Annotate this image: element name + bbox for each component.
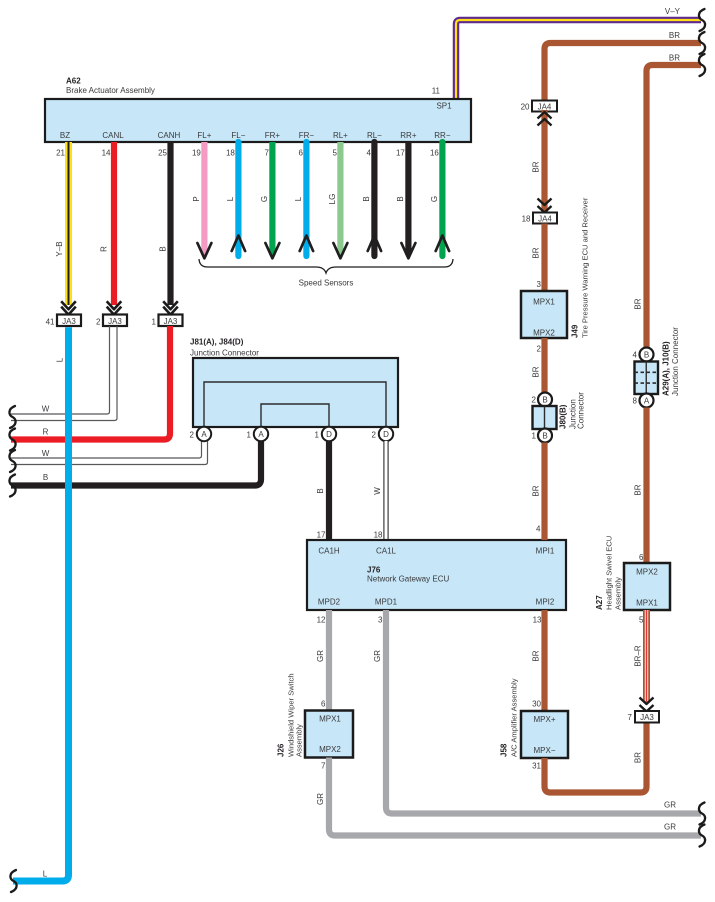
connector 20 JA4 xyxy=(521,101,557,112)
wire BR from node 8A to A27 pin 6 xyxy=(634,408,647,564)
svg-text:Assembly: Assembly xyxy=(295,724,304,757)
squiggle break W wires left xyxy=(9,406,15,428)
svg-text:Connector: Connector xyxy=(577,392,586,429)
svg-text:2: 2 xyxy=(532,396,537,405)
wire G speed sensor FR+ xyxy=(260,142,279,258)
wire GR from MPD2 pin 12 to J26 pin 6 xyxy=(316,610,329,711)
svg-text:V–Y: V–Y xyxy=(665,7,681,16)
svg-text:L: L xyxy=(226,196,235,201)
svg-text:3: 3 xyxy=(537,280,542,289)
wire G speed sensor RR- xyxy=(430,142,449,256)
wire W from 2 JA3 to left edge (lower) xyxy=(11,326,117,421)
svg-text:Junction Connector: Junction Connector xyxy=(190,349,259,358)
svg-text:SP1: SP1 xyxy=(436,102,452,111)
svg-text:CANH: CANH xyxy=(158,131,181,140)
ECU A27 Headlight Swivel ECU Assembly xyxy=(595,536,670,610)
wire Y-B from pin 21 to JA3 xyxy=(55,142,69,305)
svg-text:MPX2: MPX2 xyxy=(319,745,341,754)
svg-text:BR: BR xyxy=(532,366,541,377)
svg-text:17: 17 xyxy=(317,531,326,540)
squiggle break GR wire 2 right edge xyxy=(699,825,705,847)
svg-text:4: 4 xyxy=(633,351,638,360)
svg-text:5: 5 xyxy=(332,149,337,158)
svg-text:18: 18 xyxy=(522,215,531,224)
wire L cyan from 41 JA3 down to bottom left xyxy=(13,327,69,881)
svg-text:J76: J76 xyxy=(367,566,381,575)
wire W from junction circle 2A to left edge (lower) xyxy=(11,441,208,465)
svg-text:B: B xyxy=(644,351,649,360)
junction connector J81(A), J84(D) xyxy=(190,338,398,428)
svg-text:CANL: CANL xyxy=(102,131,124,140)
switch J26 Windshield Wiper Switch Assembly xyxy=(277,673,354,757)
svg-text:18: 18 xyxy=(374,531,383,540)
svg-text:GR: GR xyxy=(316,650,325,662)
svg-text:1: 1 xyxy=(532,432,537,441)
node 1A xyxy=(247,427,269,441)
svg-text:G: G xyxy=(260,196,269,202)
svg-text:25: 25 xyxy=(158,149,167,158)
svg-text:Network Gateway ECU: Network Gateway ECU xyxy=(367,575,449,584)
svg-text:12: 12 xyxy=(317,616,326,625)
svg-text:D: D xyxy=(326,430,332,439)
svg-text:7: 7 xyxy=(321,762,326,771)
svg-text:14: 14 xyxy=(102,149,111,158)
svg-text:RR−: RR− xyxy=(434,131,451,140)
svg-text:2: 2 xyxy=(537,345,542,354)
svg-text:1: 1 xyxy=(247,431,252,440)
svg-text:6: 6 xyxy=(639,553,644,562)
wire B speed sensor RR+ xyxy=(396,142,415,258)
ECU J58 A/C Amplifier Assembly xyxy=(500,678,569,758)
svg-text:J80(B): J80(B) xyxy=(559,404,568,429)
svg-text:LG: LG xyxy=(328,194,337,205)
internal bus 1A-1D xyxy=(261,404,329,426)
svg-text:BR: BR xyxy=(532,650,541,661)
wire GR from J26 pin 7 to right edge xyxy=(316,758,701,836)
squiggle break cyan wire bottom left xyxy=(10,870,16,892)
svg-text:Assembly: Assembly xyxy=(614,577,623,610)
svg-text:FR−: FR− xyxy=(299,131,315,140)
internal bus 2A-2D xyxy=(204,382,386,426)
wire GR from MPD1 pin 3 to right edge xyxy=(373,610,701,814)
svg-text:MPD1: MPD1 xyxy=(375,598,398,607)
svg-text:W: W xyxy=(373,487,382,495)
connector 2 JA3 xyxy=(96,315,127,327)
svg-text:21: 21 xyxy=(56,149,65,158)
squiggle break GR wire 1 right edge xyxy=(699,803,705,825)
wire L speed sensor FR- xyxy=(294,142,313,256)
svg-text:13: 13 xyxy=(533,616,542,625)
svg-text:A: A xyxy=(644,397,650,406)
svg-text:11: 11 xyxy=(432,87,441,96)
svg-text:B: B xyxy=(542,396,547,405)
squiggle break BR wire 1 right edge xyxy=(699,32,705,54)
svg-text:MPX1: MPX1 xyxy=(319,715,341,724)
svg-text:MPD2: MPD2 xyxy=(318,598,341,607)
wire BR from right edge down right column to junction A29/J10 xyxy=(634,54,702,348)
svg-text:D: D xyxy=(383,430,389,439)
svg-text:BR: BR xyxy=(634,752,643,763)
svg-text:BR: BR xyxy=(634,484,643,495)
svg-text:2: 2 xyxy=(190,431,195,440)
wire BR from 18 JA4 to J49 pin 3 xyxy=(532,224,545,292)
svg-text:Brake Actuator Assembly: Brake Actuator Assembly xyxy=(66,86,155,95)
squiggle break B wire left xyxy=(9,475,15,497)
svg-text:A62: A62 xyxy=(66,77,81,86)
svg-text:A: A xyxy=(258,430,264,439)
connector 7 JA3 xyxy=(628,711,659,723)
node 8 A (A29/J10 bottom) xyxy=(633,394,654,408)
svg-text:18: 18 xyxy=(226,149,235,158)
svg-text:19: 19 xyxy=(192,149,201,158)
svg-text:4: 4 xyxy=(366,149,371,158)
svg-text:G: G xyxy=(430,196,439,202)
svg-text:B: B xyxy=(158,246,167,251)
svg-text:BR: BR xyxy=(532,161,541,172)
squiggle break R wire left xyxy=(9,429,15,451)
wire W from 2D to CA1L pin 18 xyxy=(373,441,386,540)
svg-text:3: 3 xyxy=(378,616,383,625)
svg-text:JA3: JA3 xyxy=(62,317,76,326)
svg-text:JA4: JA4 xyxy=(538,215,552,224)
svg-text:1: 1 xyxy=(152,318,157,327)
wire BR from right edge down to JA4 pin 20 xyxy=(545,31,702,100)
wire LG speed sensor RL+ xyxy=(328,142,347,258)
svg-text:BR: BR xyxy=(634,298,643,309)
svg-text:MPX−: MPX− xyxy=(533,746,555,755)
svg-text:Junction Connector: Junction Connector xyxy=(671,327,680,396)
svg-text:BR: BR xyxy=(669,31,680,40)
svg-text:GR: GR xyxy=(316,793,325,805)
svg-text:41: 41 xyxy=(46,318,55,327)
wire B speed sensor RL- xyxy=(362,142,381,256)
svg-text:A29(A), J10(B): A29(A), J10(B) xyxy=(662,341,671,396)
svg-text:6: 6 xyxy=(321,700,326,709)
svg-text:BR–R: BR–R xyxy=(634,645,643,667)
wire BR between JA4 connectors xyxy=(532,110,545,213)
junction connector J80(B) xyxy=(533,392,586,429)
svg-text:R: R xyxy=(43,428,49,437)
svg-text:MPX2: MPX2 xyxy=(636,568,658,577)
svg-text:JA3: JA3 xyxy=(640,713,654,722)
svg-text:GR: GR xyxy=(373,650,382,662)
wire BR from J76 MPI2 pin 13 to J58 pin 30 xyxy=(532,610,545,711)
svg-text:B: B xyxy=(396,196,405,201)
svg-text:MPX+: MPX+ xyxy=(533,715,555,724)
node 2D xyxy=(372,427,394,441)
svg-text:BR: BR xyxy=(532,247,541,258)
svg-text:7: 7 xyxy=(264,149,269,158)
svg-text:L: L xyxy=(294,196,303,201)
svg-text:JA3: JA3 xyxy=(164,317,178,326)
svg-text:BZ: BZ xyxy=(60,131,70,140)
squiggle break BR wire 2 right edge xyxy=(699,54,705,76)
node 2 B (J80 top) xyxy=(532,393,552,407)
arrow down into 7 JA3 xyxy=(640,698,654,712)
svg-text:B: B xyxy=(316,488,325,493)
svg-text:Speed Sensors: Speed Sensors xyxy=(299,279,354,288)
svg-text:B: B xyxy=(542,432,547,441)
svg-text:A/C Amplifier Assembly: A/C Amplifier Assembly xyxy=(510,678,519,757)
svg-text:17: 17 xyxy=(396,149,405,158)
arrow up into 20 JA4 xyxy=(538,112,552,126)
svg-text:16: 16 xyxy=(430,149,439,158)
svg-text:RL+: RL+ xyxy=(333,131,348,140)
node 1 B (J80 bottom) xyxy=(532,429,552,443)
svg-text:31: 31 xyxy=(532,762,541,771)
wire R from pin 14 to JA3 xyxy=(100,142,115,305)
svg-text:J49: J49 xyxy=(571,324,580,338)
connector 41 JA3 xyxy=(46,315,81,327)
arrow down into 18 JA4 xyxy=(538,199,552,213)
svg-text:CA1H: CA1H xyxy=(318,547,340,556)
svg-text:MPX1: MPX1 xyxy=(533,298,555,307)
svg-text:CA1L: CA1L xyxy=(376,547,397,556)
svg-text:B: B xyxy=(362,196,371,201)
arrow into connector 41 JA3 xyxy=(61,301,76,314)
svg-text:MPX1: MPX1 xyxy=(636,599,658,608)
wire BR from J49 pin 2 to junction J80 xyxy=(532,338,545,393)
connector 1 JA3 xyxy=(152,315,183,327)
svg-text:RL−: RL− xyxy=(367,131,382,140)
svg-text:J81(A), J84(D): J81(A), J84(D) xyxy=(190,338,244,347)
svg-text:L: L xyxy=(56,357,65,362)
wire BR-R from A27 pin 5 to 7 JA3 xyxy=(634,610,647,702)
svg-text:A: A xyxy=(201,430,207,439)
svg-text:Y–B: Y–B xyxy=(55,241,64,256)
squiggle break W wires left 2 xyxy=(9,450,15,472)
ECU A62 Brake Actuator Assembly xyxy=(45,77,471,143)
svg-text:8: 8 xyxy=(633,397,638,406)
svg-text:6: 6 xyxy=(298,149,303,158)
junction connector A29(A), J10(B) xyxy=(635,327,681,396)
svg-text:1: 1 xyxy=(315,431,320,440)
wire W from 2 JA3 to left edge (upper) xyxy=(11,326,110,414)
svg-text:4: 4 xyxy=(536,525,541,534)
wire V-Y from SP1 to right edge xyxy=(456,7,701,99)
connector 18 JA4 xyxy=(522,213,557,224)
svg-text:JA3: JA3 xyxy=(108,317,122,326)
wire B from junction circle 1A to left edge xyxy=(11,441,261,486)
arrow into connector 2 JA3 xyxy=(107,301,122,314)
node 2A xyxy=(190,427,212,441)
svg-text:Headlight Swivel ECU: Headlight Swivel ECU xyxy=(605,536,614,610)
ECU J49 Tire Pressure Warning ECU and Receiver xyxy=(521,197,590,338)
wire L speed sensor FL- xyxy=(226,142,245,256)
wire R from 1 JA3 to left edge xyxy=(11,326,170,440)
svg-text:20: 20 xyxy=(521,103,530,112)
svg-text:BR: BR xyxy=(532,485,541,496)
wire B from pin 25 to JA3 xyxy=(158,142,170,305)
svg-text:2: 2 xyxy=(96,318,101,327)
svg-text:GR: GR xyxy=(664,823,676,832)
svg-text:Tire Pressure Warning ECU and: Tire Pressure Warning ECU and Receiver xyxy=(581,197,590,338)
svg-text:W: W xyxy=(42,449,50,458)
svg-text:L: L xyxy=(43,870,48,879)
svg-text:2: 2 xyxy=(372,431,377,440)
svg-text:W: W xyxy=(42,405,50,414)
svg-text:MPX2: MPX2 xyxy=(533,329,555,338)
ECU J76 Network Gateway ECU xyxy=(307,540,566,610)
wire BR from J80 to J76 MPI1 pin 4 xyxy=(532,443,545,541)
svg-text:FL+: FL+ xyxy=(197,131,211,140)
svg-text:B: B xyxy=(43,473,48,482)
svg-text:MPI1: MPI1 xyxy=(536,547,555,556)
squiggle break V-Y wire right edge xyxy=(699,9,705,31)
svg-text:GR: GR xyxy=(664,801,676,810)
svg-text:FR+: FR+ xyxy=(265,131,281,140)
svg-text:R: R xyxy=(100,246,109,252)
svg-text:J26: J26 xyxy=(277,743,286,757)
svg-text:30: 30 xyxy=(532,700,541,709)
wire B from 1D to CA1H pin 17 xyxy=(316,441,329,540)
svg-text:FL−: FL− xyxy=(231,131,245,140)
wire W from junction circle 2A to left edge (upper) xyxy=(11,441,202,458)
arrow into connector 1 JA3 xyxy=(163,301,178,314)
brace Speed Sensors group xyxy=(199,259,453,288)
svg-text:A27: A27 xyxy=(595,595,604,610)
node 4 B (A29/J10 top) xyxy=(633,348,654,362)
svg-text:P: P xyxy=(192,196,201,201)
svg-text:MPI2: MPI2 xyxy=(536,598,555,607)
wire BR from J58 pin 31 to 7 JA3 xyxy=(545,723,647,793)
wire P speed sensor FL+ xyxy=(192,142,211,258)
svg-text:BR: BR xyxy=(669,54,680,63)
svg-text:7: 7 xyxy=(628,713,633,722)
svg-text:J58: J58 xyxy=(500,743,509,757)
svg-text:RR+: RR+ xyxy=(400,131,417,140)
node 1D xyxy=(315,427,337,441)
